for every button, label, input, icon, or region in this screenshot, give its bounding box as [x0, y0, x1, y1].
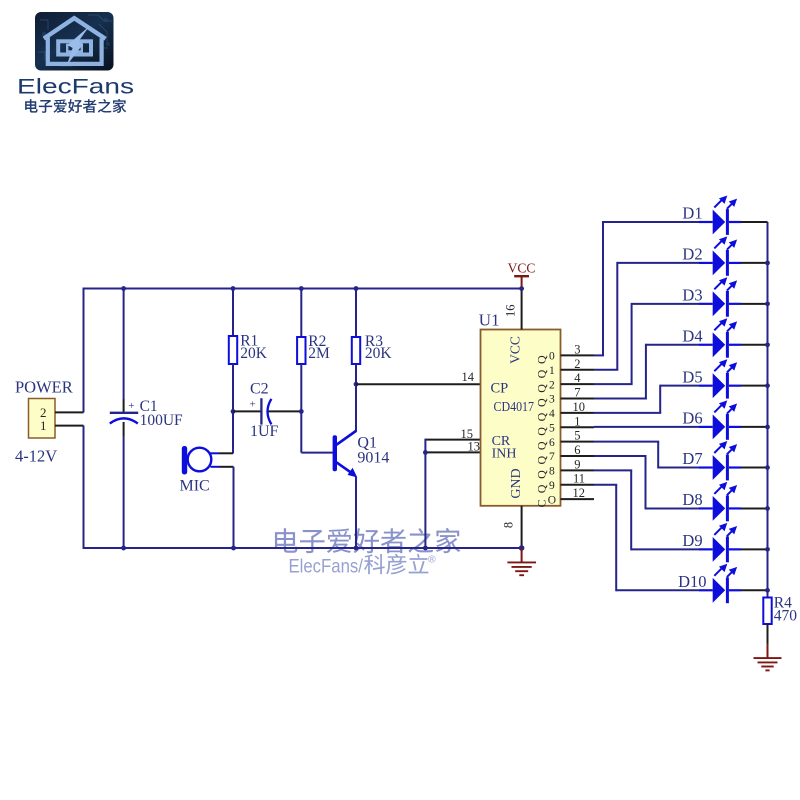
svg-text:3: 3	[549, 394, 555, 406]
junction C1 bottom	[121, 546, 126, 551]
svg-text:D4: D4	[682, 326, 702, 345]
svg-text:11: 11	[573, 472, 585, 486]
svg-text:20K: 20K	[240, 345, 268, 362]
LED D3	[594, 383, 633, 385]
svg-text:+: +	[249, 399, 255, 411]
ground symbol under U1	[521, 548, 523, 562]
junction CR-INH ground	[423, 546, 428, 551]
connector POWER J1	[29, 399, 56, 439]
C1 positive plate	[110, 412, 138, 414]
wire R1 bottom to mic node	[232, 364, 234, 454]
Q1 emitter arrow	[348, 468, 358, 478]
junction D10 cathode rail	[765, 588, 770, 593]
svg-text:D6: D6	[682, 409, 702, 428]
wire top bus VCC rail	[84, 288, 522, 290]
LED D7	[594, 441, 659, 443]
svg-text:7: 7	[549, 451, 555, 463]
svg-text:C2: C2	[250, 381, 269, 398]
svg-text:5: 5	[574, 429, 580, 443]
VCC bar	[514, 275, 529, 277]
junction R2-C2 node	[299, 409, 304, 414]
LED D9	[594, 469, 632, 471]
junction D8 cathode rail	[765, 506, 770, 511]
wire R3 bottom / collector	[355, 364, 357, 431]
wire right bus (LED cathode rail)	[767, 222, 769, 598]
svg-text:Q: Q	[535, 398, 549, 407]
mic top pin	[211, 452, 220, 454]
wire C1 bottom lead	[123, 436, 125, 548]
svg-text:2: 2	[574, 357, 580, 371]
wire POWER pin1 stub	[55, 425, 84, 427]
svg-text:D8: D8	[682, 490, 702, 509]
junction R2 top	[299, 286, 304, 291]
C1 top pin	[123, 399, 125, 412]
microphone MIC	[182, 446, 187, 475]
svg-text:14: 14	[462, 370, 475, 384]
wire mic top	[219, 452, 233, 454]
junction C1 top	[121, 286, 126, 291]
junction emitter ground	[354, 546, 359, 551]
junction D6 cathode rail	[765, 425, 770, 430]
junction CR-INH	[423, 450, 428, 455]
U1 pin 1 (Q5)	[561, 426, 595, 428]
junction mic ground	[231, 546, 236, 551]
svg-text:9: 9	[574, 457, 580, 471]
LED D6	[594, 426, 699, 428]
junction D9 cathode rail	[765, 547, 770, 552]
svg-text:100UF: 100UF	[140, 412, 183, 429]
wire emitter to ground rail	[355, 477, 357, 548]
svg-text:POWER: POWER	[15, 378, 73, 397]
resistor R4 470	[763, 598, 771, 625]
U1 pin 6 (Q7)	[561, 455, 595, 457]
LED D10	[594, 484, 617, 486]
Q1 collector lead	[336, 431, 356, 445]
logo house outline	[44, 18, 106, 64]
svg-text:8: 8	[502, 522, 516, 528]
wire R1 top lead	[232, 289, 234, 337]
wire R3 top lead	[355, 289, 357, 338]
U1 pin 11 (Q9)	[561, 484, 595, 486]
junction D4 cathode rail	[765, 342, 770, 347]
wire bottom bus ground rail	[84, 547, 522, 549]
svg-text:4: 4	[574, 371, 581, 385]
svg-text:Q: Q	[535, 456, 549, 465]
wire C2 left lead	[233, 410, 261, 412]
LED D5	[594, 412, 661, 414]
U1 pin 2 (Q1)	[561, 369, 595, 371]
svg-text:VCC: VCC	[508, 261, 536, 276]
svg-text:6: 6	[574, 443, 580, 457]
svg-text:D2: D2	[682, 245, 702, 264]
C2 straight plate	[260, 398, 262, 424]
svg-text:20K: 20K	[365, 345, 393, 362]
subtitle 电子爱好者之家	[25, 99, 126, 113]
svg-text:2: 2	[549, 379, 555, 391]
svg-text:D5: D5	[682, 367, 702, 386]
svg-text:INH: INH	[492, 446, 517, 461]
svg-text:Q: Q	[535, 484, 549, 493]
svg-text:D3: D3	[682, 286, 702, 305]
svg-text:U1: U1	[479, 311, 500, 330]
junction R3 top	[354, 286, 359, 291]
wire left vertical from POWER pin1 to bottom rail	[83, 426, 85, 549]
svg-text:Q: Q	[535, 470, 549, 479]
svg-text:Q: Q	[535, 427, 549, 436]
junction D7 cathode rail	[765, 465, 770, 470]
svg-text:Q: Q	[535, 355, 549, 364]
svg-text:1: 1	[549, 365, 555, 377]
U1 pin 9 (Q8)	[561, 469, 595, 471]
U1 pin 5 (Q6)	[561, 441, 595, 443]
wire R2 bottom to base	[300, 364, 302, 453]
svg-text:VCC: VCC	[508, 336, 523, 364]
junction D2 cathode rail	[765, 261, 770, 266]
wire CP net	[356, 383, 481, 385]
wire pin16	[521, 289, 523, 330]
transistor Q1 9014	[333, 435, 337, 471]
wire C1 top lead	[123, 289, 125, 400]
wire CR net	[425, 439, 480, 441]
junction C2-R1 node	[231, 409, 236, 414]
svg-text:1: 1	[40, 418, 47, 433]
svg-text:MIC: MIC	[180, 478, 210, 495]
junction pin8 ground rail	[519, 545, 525, 551]
svg-text:10: 10	[573, 400, 586, 414]
wire R2 top lead	[300, 289, 302, 338]
C1 curved plate	[110, 418, 138, 423]
svg-text:9: 9	[549, 480, 555, 492]
svg-text:D7: D7	[682, 449, 702, 468]
op IC U1 CD4017	[481, 330, 561, 506]
svg-text:D10: D10	[678, 572, 706, 591]
svg-text:ElecFans: ElecFans	[17, 74, 134, 98]
svg-text:5: 5	[549, 422, 555, 434]
C1 bottom pin	[123, 422, 125, 436]
LED D4	[594, 398, 647, 400]
junction VCC rail	[519, 286, 524, 291]
Q1 emitter lead	[336, 462, 353, 474]
LED D8	[594, 455, 647, 457]
wire CR-INH to ground rail	[424, 439, 426, 548]
svg-text:4: 4	[549, 408, 555, 420]
wire mic bottom	[219, 466, 234, 468]
wire INH net	[425, 451, 480, 453]
svg-text:Q: Q	[535, 384, 549, 393]
svg-text:470: 470	[774, 608, 798, 625]
logo lightning bolt	[67, 26, 90, 65]
svg-text:12: 12	[573, 486, 586, 500]
svg-text:Q: Q	[535, 412, 549, 421]
U1 pin 12 (CO)	[561, 498, 595, 500]
wire left vertical from POWER pin2 to top rail	[83, 288, 85, 413]
svg-text:7: 7	[574, 386, 580, 400]
logo inner rectangle	[58, 41, 91, 54]
svg-text:Q: Q	[535, 369, 549, 378]
ground symbol under R4	[767, 644, 769, 658]
U1 pin 7 (Q3)	[561, 398, 595, 400]
svg-text:9014: 9014	[357, 450, 389, 467]
wire mic to ground rail	[233, 467, 235, 548]
junction R1 top	[231, 286, 236, 291]
svg-text:®: ®	[428, 554, 436, 566]
svg-text:GND: GND	[509, 468, 524, 498]
wire base	[301, 452, 333, 454]
svg-text:CP: CP	[491, 380, 509, 396]
wire POWER pin2 stub	[55, 411, 84, 413]
svg-text:8: 8	[549, 466, 555, 478]
C2 curved plate	[268, 399, 272, 425]
svg-text:D9: D9	[682, 531, 702, 550]
wire C2 right lead	[268, 410, 302, 412]
wire pin8	[521, 506, 523, 548]
LED D2	[594, 369, 618, 371]
junction collector-CP node	[354, 382, 359, 387]
svg-text:0: 0	[549, 351, 555, 363]
VCC stem	[521, 276, 523, 288]
svg-text:ElecFans/: ElecFans/	[289, 555, 364, 577]
LED D1	[594, 354, 604, 356]
svg-text:6: 6	[549, 437, 555, 449]
svg-text:16: 16	[504, 305, 518, 318]
mic bottom pin	[211, 466, 220, 468]
svg-text:1: 1	[574, 414, 580, 428]
U1 pin 4 (Q2)	[561, 383, 595, 385]
svg-text:2M: 2M	[308, 345, 330, 362]
svg-text:4-12V: 4-12V	[15, 447, 57, 466]
junction D3 cathode rail	[765, 301, 770, 306]
U1 pin 3 (Q0)	[561, 354, 595, 356]
svg-text:CD4017: CD4017	[494, 399, 535, 414]
svg-text:Q: Q	[535, 441, 549, 450]
U1 pin 10 (Q4)	[561, 412, 595, 414]
watermark line1 电子爱好者之家	[275, 528, 460, 553]
svg-text:+: +	[128, 400, 134, 412]
wire R4 to ground	[767, 624, 769, 644]
svg-text:1UF: 1UF	[250, 423, 279, 440]
svg-text:C: C	[535, 499, 549, 507]
svg-text:D1: D1	[682, 204, 702, 223]
junction D5 cathode rail	[765, 383, 770, 388]
svg-text:13: 13	[468, 440, 481, 454]
svg-text:3: 3	[574, 342, 580, 356]
svg-text:O: O	[548, 494, 556, 506]
